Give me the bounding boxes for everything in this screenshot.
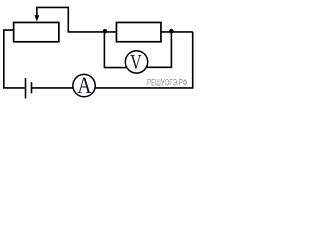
resistor R2 body — [116, 22, 161, 41]
wire: voltmeter branch left (down from node A) — [104, 31, 136, 67]
wire: ammeter to right edge and up — [84, 32, 193, 88]
battery cell: long plate — [25, 78, 27, 98]
voltmeter V1 circle — [125, 51, 147, 73]
ammeter A1 circle — [73, 74, 95, 96]
rheostat R1 body — [14, 22, 59, 41]
svg-text:A: A — [77, 73, 92, 99]
wire: battery to ammeter — [32, 87, 85, 89]
node A junction dot — [103, 29, 108, 34]
wire: left lead from rheostat left terminal — [4, 30, 25, 88]
wire: slider wire from arrow over to parallel section — [37, 7, 117, 32]
battery cell: short plate — [31, 82, 33, 93]
wire: resistor right lead to right edge — [161, 31, 193, 33]
rheostat slider arrowhead — [35, 15, 40, 21]
svg-text:РЕШУОГЭ.РФ: РЕШУОГЭ.РФ — [147, 77, 187, 88]
node B junction dot — [169, 29, 174, 33]
svg-text:V: V — [130, 51, 142, 75]
wire: voltmeter branch right (up to node B) — [137, 31, 172, 67]
